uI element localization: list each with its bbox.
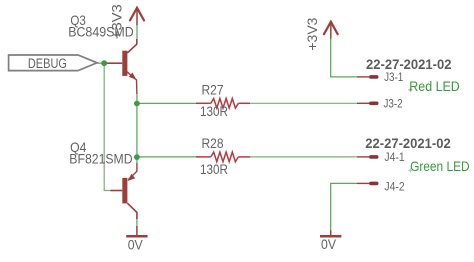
transistor Q3 (NPN BC849SMD)	[107, 39, 138, 94]
svg-text:J4-2: J4-2	[384, 181, 404, 193]
pin J4-1	[357, 152, 405, 164]
svg-text:R27: R27	[202, 83, 224, 98]
power +3V3 (right) arrow symbol	[324, 22, 338, 38]
pin J3-2	[357, 99, 403, 111]
svg-text:0V: 0V	[321, 236, 337, 252]
node: emitter junction (Q3)	[134, 101, 140, 107]
wire: Q4 collector to ground	[136, 217, 138, 226]
svg-text:0V: 0V	[128, 237, 144, 253]
transistor Q4 (PNP BF821SMD)	[111, 163, 137, 219]
wire: node to Q4 emitter	[136, 157, 138, 163]
svg-text:Green LED: Green LED	[410, 158, 470, 174]
svg-text:BC849SMD: BC849SMD	[68, 24, 134, 40]
wire: DEBUG net down to Q4 base	[104, 63, 111, 190]
svg-text:22-27-2021-02: 22-27-2021-02	[365, 136, 451, 152]
wire: pin J4-2 to ground (right)	[331, 183, 357, 230]
wire: +3V3 right down to pin J3-1	[331, 38, 357, 77]
svg-text:BF821SMD: BF821SMD	[69, 151, 132, 167]
node: junction at DEBUG net	[101, 60, 107, 66]
resistor R28	[196, 152, 250, 162]
wire: R27 to pin J3-2	[250, 102, 357, 104]
node: emitter junction (Q4)	[134, 154, 140, 160]
label DEBUG flag	[9, 55, 97, 71]
label Green LED	[408, 158, 469, 174]
wire: node down to Q4 emitter node	[136, 103, 138, 157]
label Red LED	[408, 78, 460, 94]
power +3V3 (left) arrow symbol	[130, 8, 144, 25]
svg-text:130R: 130R	[200, 162, 228, 177]
resistor R27	[196, 99, 250, 109]
pin J4-2	[357, 181, 405, 193]
svg-text:J3-1: J3-1	[384, 72, 403, 84]
wire: node to R28	[137, 156, 196, 158]
svg-text:J4-1: J4-1	[384, 152, 404, 164]
ground 0V (left)	[126, 226, 147, 253]
wire: DEBUG to Q3 base	[97, 62, 108, 64]
svg-text:J3-2: J3-2	[384, 99, 403, 111]
ground 0V (right)	[320, 231, 341, 253]
pin J3-1	[357, 72, 403, 84]
svg-text:22-27-2021-02: 22-27-2021-02	[366, 57, 452, 73]
svg-text:R28: R28	[202, 136, 224, 151]
svg-text:+3V3: +3V3	[305, 18, 320, 51]
wire: +3V3 to Q3 collector	[136, 25, 138, 39]
wire: R28 to pin J4-1	[250, 156, 357, 158]
svg-text:130R: 130R	[200, 104, 228, 119]
svg-text:DEBUG: DEBUG	[28, 56, 67, 71]
svg-text:Red LED: Red LED	[409, 78, 460, 94]
wire: Q3 emitter to node	[136, 94, 138, 103]
wire: node to R27	[137, 102, 196, 104]
